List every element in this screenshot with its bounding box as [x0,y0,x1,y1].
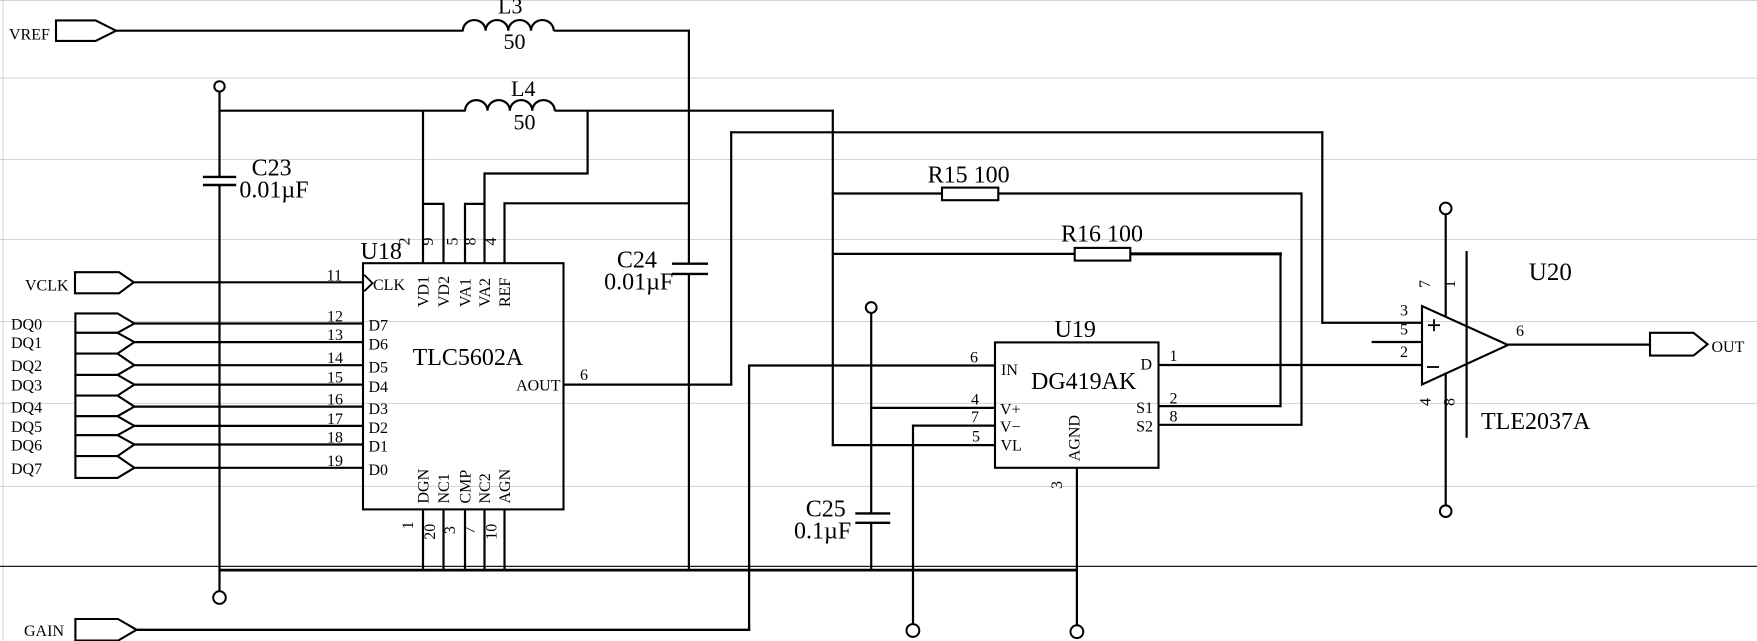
wire: V- pin lead [912,425,996,427]
svg-text:50: 50 [514,110,536,135]
svg-text:VA1: VA1 [458,278,475,307]
U18 bottom pin AGN (10) [484,468,514,570]
svg-text:4: 4 [1418,398,1435,406]
connector DQ1 [11,333,134,354]
wire: R15 left lead [832,192,942,194]
svg-text:AOUT: AOUT [516,378,561,395]
svg-text:IN: IN [1001,362,1018,379]
U19 pin AGND (3) stub down to terminal [1049,415,1084,625]
svg-text:VREF: VREF [9,27,50,44]
svg-text:OUT: OUT [1712,339,1745,356]
svg-text:7: 7 [971,409,979,426]
svg-text:6: 6 [580,367,588,384]
wire: V+ pin lead [870,407,995,409]
wire DQ7 to D0 [134,467,364,469]
svg-text:L4: L4 [511,76,535,101]
svg-text:V+: V+ [1000,402,1021,419]
connector VCLK [25,272,134,294]
wire: R16 left lead [832,253,1075,255]
svg-text:5: 5 [972,429,980,446]
svg-text:3: 3 [442,526,459,534]
svg-text:10: 10 [484,524,501,540]
svg-text:U20: U20 [1529,259,1572,286]
wire: AOUT riser x=731.2 [730,131,732,385]
wire DQ6 to D1 [134,443,364,445]
svg-text:0.1µF: 0.1µF [794,519,851,545]
svg-text:DQ1: DQ1 [11,335,42,352]
svg-text:D1: D1 [369,439,389,456]
svg-text:19: 19 [327,453,343,470]
wire: S1 pin lead [1159,405,1282,407]
wire: analog ground bus (thick) [220,569,1079,572]
wire: IN pin lead [749,364,995,366]
connector DQ7 [11,456,134,478]
wire: D pin to op-amp minus input [1159,364,1424,366]
wire: R15 right lead [998,192,1302,194]
svg-text:1: 1 [1442,280,1459,288]
svg-text:DQ7: DQ7 [11,461,42,478]
resistor R16 [1061,222,1143,261]
wire: C24 to ground bus [688,274,690,571]
wire DQ1 to D6 [134,341,364,343]
svg-text:DQ3: DQ3 [11,378,42,395]
U18 top pin VA2 (8): stub with jog up to L4 right end [463,110,588,307]
wire: stub to bottom open terminal [218,570,220,592]
svg-text:NC2: NC2 [477,473,494,503]
node: open terminal bottom left [213,591,226,604]
svg-text:50: 50 [504,29,526,54]
svg-text:7: 7 [462,526,479,534]
svg-text:18: 18 [327,430,343,447]
U20 pin 4 bottom stub, terminal and rotated numbers 4,8 [1418,373,1459,518]
inductor L4 [465,76,555,135]
op-amp U20 triangle [1422,259,1591,435]
wire: terminal down through V+ junction to C25 [870,313,872,514]
svg-text:D5: D5 [369,359,389,376]
capacitor C25 [794,497,890,545]
connector VREF [9,20,116,43]
svg-text:8: 8 [1170,409,1178,426]
wire: V- riser down to terminal [912,425,914,624]
svg-text:VL: VL [1001,438,1022,455]
svg-text:15: 15 [327,370,343,387]
svg-text:7: 7 [1417,280,1434,288]
U18 bottom pin CMP (3) [442,470,475,571]
svg-text:VD1: VD1 [416,276,433,307]
wire: R16 right lead (thick) [1130,252,1282,255]
connector DQ4 [11,396,134,417]
svg-text:DG419AK: DG419AK [1031,369,1137,395]
resistor R15 [928,163,1010,201]
svg-text:2: 2 [1170,391,1178,408]
svg-text:4: 4 [483,238,500,246]
IC U19 DG419AK body [995,317,1159,468]
inductor L3 [463,0,554,54]
svg-text:4: 4 [971,391,979,408]
svg-text:3: 3 [1049,481,1066,489]
svg-text:2: 2 [397,238,414,246]
svg-text:6: 6 [1516,323,1524,340]
node: open terminal below V- riser [907,624,920,637]
wire: thin horizontal rail across sheet [0,565,1757,567]
svg-text:8: 8 [1442,398,1459,406]
connector OUT [1650,333,1745,356]
svg-text:5: 5 [445,238,462,246]
svg-text:0.01µF: 0.01µF [239,178,308,204]
wire: x=219.5 vertical through C23 to bus [218,111,220,177]
wire: riser x=1280.5 down to S1 [1279,252,1281,407]
wire: terminal stub down to L4 net [218,91,220,111]
svg-text:8: 8 [463,238,480,246]
svg-text:D: D [1140,357,1152,374]
wire: VL pin lead [832,444,996,446]
svg-text:0.01µF: 0.01µF [604,270,673,296]
wire: GAIN to riser [136,629,751,631]
svg-text:NC1: NC1 [436,473,453,503]
wire: L3 to right corner [554,30,690,32]
svg-text:D3: D3 [369,401,389,418]
U18 top pin VA1 (5): stub and bridge to VA2 [445,203,486,307]
svg-text:9: 9 [420,238,437,246]
svg-text:DGN: DGN [416,468,433,503]
U18 bottom pin NC1 (20) [422,473,453,571]
svg-text:5: 5 [1400,321,1408,338]
wire DQ5 to D2 [134,425,364,427]
svg-text:S1: S1 [1136,400,1153,417]
connector DQ5 [11,416,134,436]
wire: into U20 pin 3 [1321,322,1423,324]
U20 plus sign [1428,319,1440,331]
U20 pin 5 stub and number [1372,321,1423,342]
svg-text:TLE2037A: TLE2037A [1481,409,1591,435]
node: open terminal above C25 [866,302,877,313]
svg-text:D2: D2 [369,420,389,437]
svg-text:16: 16 [327,392,343,409]
svg-text:VD2: VD2 [436,276,453,307]
svg-text:U19: U19 [1055,317,1096,343]
svg-text:L3: L3 [498,0,522,19]
capacitor C24 [604,248,708,296]
U20 minus sign [1427,366,1439,368]
svg-text:17: 17 [327,411,343,428]
wire DQ2 to D5 [134,364,364,366]
svg-text:2: 2 [1400,344,1408,361]
svg-text:13: 13 [327,327,343,344]
svg-text:R16 100: R16 100 [1061,222,1143,248]
svg-text:20: 20 [422,524,439,540]
wire DQ4 to D3 [134,406,364,408]
wire: L4 to corner at x=832.8 [555,110,834,112]
svg-text:D0: D0 [369,462,389,479]
svg-text:12: 12 [327,309,343,326]
svg-text:DQ6: DQ6 [11,438,42,455]
wire: VCLK to CLK pin [133,281,364,283]
U18 top pin VD2 (9): stub and bridge to VD1 [420,203,453,307]
connector GAIN [24,619,137,641]
U18 bottom pin NC2 (7) [462,473,494,571]
wire: AOUT out of U18 [564,384,733,386]
node: open terminal above C23 [214,81,224,91]
U18 bottom pin DGN (1) [400,468,433,570]
wire: GAIN riser x=749.1 [748,365,750,631]
svg-text:GAIN: GAIN [24,623,64,640]
svg-text:DQ5: DQ5 [11,419,42,436]
svg-text:VCLK: VCLK [25,277,69,294]
svg-text:S2: S2 [1136,419,1153,436]
connector DQ6 [11,435,134,456]
svg-text:DQ4: DQ4 [11,400,42,417]
U18 top pin REF (4): stub and wire to C24 net [483,202,690,307]
svg-text:R15 100: R15 100 [928,163,1010,189]
node: open terminal below AGND [1071,625,1084,638]
svg-text:REF: REF [497,278,514,307]
U18 CLK input wedge and label [364,275,405,294]
capacitor C23 [203,156,309,204]
connector DQ0 [11,313,134,333]
wire: drop x=1322.3 to op-amp + input [1321,131,1323,323]
U18 top pin VD1 (2): stub to L4 net [397,110,433,307]
wire: U20 output pin 6 [1508,323,1651,345]
svg-text:AGND: AGND [1067,415,1084,461]
wire: riser x=1301.5 down to S2 [1300,193,1302,426]
svg-text:TLC5602A: TLC5602A [413,345,524,371]
wire DQ0 to D7 [134,322,364,324]
svg-text:3: 3 [1400,302,1408,319]
svg-text:DQ0: DQ0 [11,317,42,334]
wire: AOUT top run y=132.3 [730,131,1323,133]
U20 pin 7 top stub, terminal and rotated numbers 7,1 [1417,203,1459,318]
svg-text:DQ2: DQ2 [11,358,42,375]
svg-text:AGN: AGN [497,468,514,503]
svg-text:14: 14 [327,350,343,367]
svg-text:VA2: VA2 [477,278,494,307]
svg-text:D4: D4 [369,379,389,396]
svg-text:1: 1 [400,521,417,529]
svg-text:D7: D7 [369,318,389,335]
wire: VREF to L3 [115,30,463,32]
svg-text:D6: D6 [369,336,389,353]
wire DQ3 to D4 [134,384,364,386]
connector DQ3 [11,375,134,396]
wire: L4 branch riser x=832.8 [832,110,834,446]
wire: vertical drop x=688.9 down to C24 [688,30,690,265]
svg-text:11: 11 [327,267,342,284]
svg-text:V−: V− [1000,419,1021,436]
wire: C25 to bus [870,523,872,571]
svg-text:CLK: CLK [373,277,405,294]
svg-text:CMP: CMP [458,470,475,504]
connector DQ2 [11,354,134,376]
wire: S2 pin lead [1159,424,1303,426]
IC U18 TLC5602A body [361,239,564,510]
svg-text:1: 1 [1170,348,1178,365]
U20 offset-null bar (pins 1/8) [1465,251,1467,438]
wire: L4 net horizontal [219,110,466,112]
svg-text:6: 6 [970,350,978,367]
